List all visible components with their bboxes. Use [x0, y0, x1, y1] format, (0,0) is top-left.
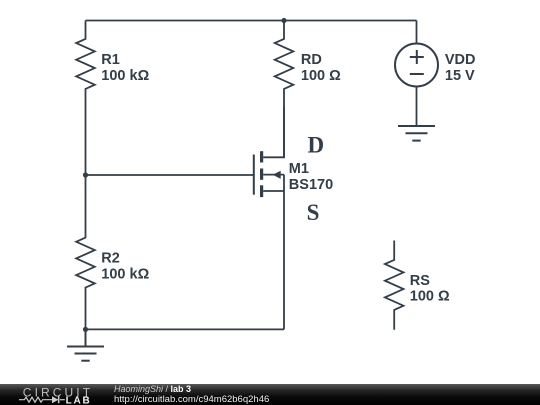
resistor RS	[385, 241, 404, 330]
source corner wire	[263, 190, 284, 192]
label D drain	[307, 133, 324, 158]
svg-text:BS170: BS170	[289, 177, 333, 193]
body wire with arrow	[263, 174, 284, 176]
svg-text:R1: R1	[101, 52, 120, 68]
gate plate	[253, 155, 255, 195]
channel bar body	[260, 169, 263, 180]
resistor RD	[275, 21, 294, 108]
channel bar drain	[260, 151, 263, 162]
transistor M1 (NMOS)	[254, 107, 284, 197]
svg-text:M1: M1	[289, 161, 309, 177]
node A gate node dot	[83, 172, 88, 177]
svg-text:15 V: 15 V	[445, 68, 475, 84]
voltage source VDD	[395, 21, 438, 127]
drain corner wire	[263, 107, 284, 157]
label S source	[307, 200, 320, 225]
svg-text:RD: RD	[301, 52, 322, 68]
label RS value	[410, 273, 450, 305]
footer url text	[114, 395, 269, 405]
node bottom-left dot	[83, 327, 88, 332]
svg-text:RS: RS	[410, 273, 430, 289]
wire bottom rail	[86, 328, 285, 330]
ground GND1	[67, 329, 104, 360]
svg-text:LAB: LAB	[66, 395, 92, 405]
body-source tie	[283, 175, 285, 191]
svg-text:S: S	[307, 200, 320, 225]
svg-text:R2: R2	[101, 251, 120, 267]
label R1 value	[101, 52, 149, 84]
channel bar source	[260, 185, 263, 197]
footer bar	[0, 384, 540, 405]
svg-text:100 kΩ: 100 kΩ	[101, 267, 149, 283]
svg-text:100 Ω: 100 Ω	[410, 289, 450, 305]
svg-text:100 kΩ: 100 kΩ	[101, 68, 149, 84]
footer title text	[114, 385, 191, 395]
wire top rail	[86, 20, 417, 22]
label VDD value	[445, 52, 476, 84]
label RD value	[301, 52, 341, 84]
svg-text:D: D	[307, 133, 324, 158]
wire source	[283, 191, 285, 329]
node junction top (RD tap)	[281, 18, 286, 23]
wire gate	[86, 174, 254, 176]
wire drain	[283, 107, 285, 157]
svg-text:VDD: VDD	[445, 52, 476, 68]
label R2 value	[101, 251, 149, 283]
resistor R1	[76, 21, 95, 176]
svg-text:100 Ω: 100 Ω	[301, 68, 341, 84]
CircuitLab logo	[0, 384, 110, 405]
resistor R2	[76, 175, 95, 329]
label M1 BS170	[289, 161, 333, 193]
ground GND2	[398, 126, 435, 141]
